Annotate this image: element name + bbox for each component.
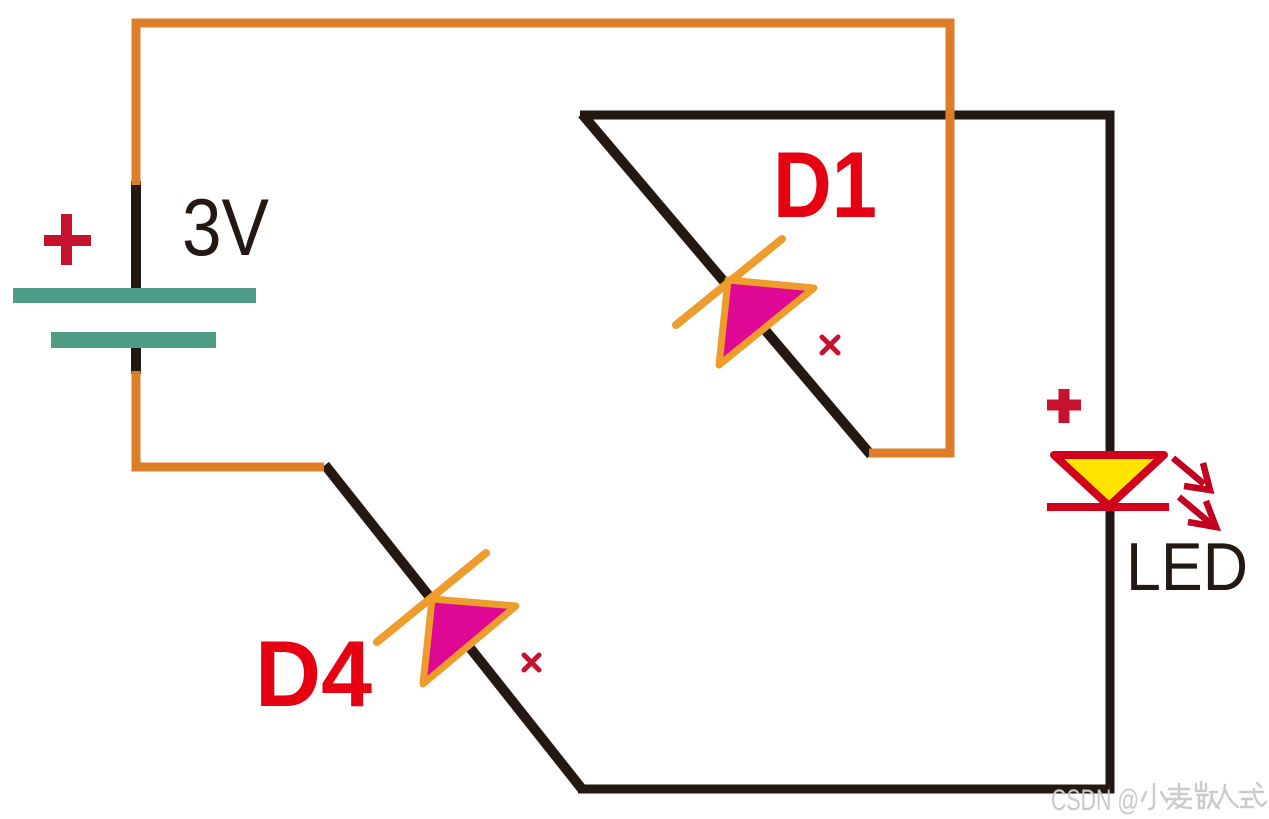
battery BT1 positive plate	[13, 288, 256, 303]
diode D4 triangle	[423, 599, 516, 684]
battery plus sign	[44, 214, 91, 265]
LED light arrow 2	[1179, 497, 1216, 527]
blocked current x mark near D4	[524, 655, 539, 670]
diode D1 triangle	[719, 280, 814, 365]
watermark CJK glyphs	[1142, 782, 1266, 809]
svg-text:CSDN @: CSDN @	[1051, 784, 1139, 817]
blocked current x mark near D1	[822, 337, 838, 353]
wire black battery bottom lead	[131, 344, 141, 374]
LED cathode bar	[1047, 503, 1169, 511]
wire black diagonal through D4	[325, 465, 582, 789]
wire black top horizontal, right vertical, bottom horizontal	[578, 115, 1110, 789]
wire black battery top lead	[131, 181, 141, 296]
svg-text:D1: D1	[773, 132, 877, 237]
diode D4 cathode bar	[377, 553, 486, 642]
svg-text:3V: 3V	[182, 183, 269, 273]
LED D triangle	[1054, 455, 1164, 506]
battery BT1 negative plate	[51, 332, 216, 348]
svg-text:LED: LED	[1126, 529, 1248, 605]
diode D1 cathode bar	[676, 239, 782, 325]
wire black diagonal through D1	[582, 114, 871, 455]
LED light arrow 1	[1173, 458, 1210, 490]
wire orange from battery negative: down then right to D4	[136, 371, 324, 467]
svg-text:D4: D4	[255, 621, 372, 726]
LED plus sign	[1047, 389, 1081, 423]
wire orange loop from battery positive: left vertical, top horizontal, right vertical, stub to D1	[136, 23, 950, 453]
